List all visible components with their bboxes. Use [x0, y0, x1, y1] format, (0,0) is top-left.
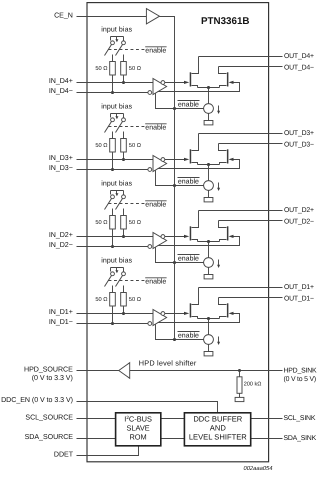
svg-text:(0 V to 3.3 V): (0 V to 3.3 V): [32, 374, 73, 382]
svg-text:SDA_SINK: SDA_SINK: [284, 435, 317, 442]
svg-text:input bias: input bias: [101, 180, 132, 188]
svg-text:enable: enable: [178, 178, 199, 186]
svg-text:input bias: input bias: [101, 257, 132, 265]
svg-text:50 Ω: 50 Ω: [95, 297, 107, 303]
svg-text:HPD_SOURCE: HPD_SOURCE: [24, 366, 73, 374]
svg-text:IN_D1+: IN_D1+: [49, 308, 73, 316]
svg-text:SCL_SINK: SCL_SINK: [284, 415, 316, 422]
svg-text:IN_D4−: IN_D4−: [49, 87, 73, 95]
svg-text:DDC_EN (0 V to 3.3 V): DDC_EN (0 V to 3.3 V): [1, 396, 73, 404]
svg-text:SCL_SOURCE: SCL_SOURCE: [25, 413, 73, 421]
svg-text:50 Ω: 50 Ω: [95, 143, 107, 149]
svg-text:50 Ω: 50 Ω: [129, 143, 141, 149]
svg-text:OUT_D3−: OUT_D3−: [284, 142, 314, 149]
svg-text:OUT_D4−: OUT_D4−: [284, 65, 314, 72]
svg-text:50 Ω: 50 Ω: [95, 66, 107, 72]
svg-text:200 kΩ: 200 kΩ: [244, 381, 262, 387]
svg-text:IN_D3−: IN_D3−: [49, 164, 73, 172]
svg-text:002aaa054: 002aaa054: [243, 465, 272, 472]
svg-text:input bias: input bias: [101, 26, 132, 34]
svg-text:HPD_SINK: HPD_SINK: [284, 367, 317, 374]
svg-text:IN_D1−: IN_D1−: [49, 318, 73, 326]
svg-text:50 Ω: 50 Ω: [129, 66, 141, 72]
svg-text:OUT_D2+: OUT_D2+: [284, 207, 314, 214]
svg-text:enable: enable: [145, 200, 166, 208]
svg-text:enable: enable: [145, 46, 166, 54]
svg-text:DDC BUFFER: DDC BUFFER: [193, 414, 242, 423]
svg-text:OUT_D1−: OUT_D1−: [284, 296, 314, 303]
svg-text:PTN3361B: PTN3361B: [201, 16, 249, 27]
svg-text:AND: AND: [210, 424, 227, 433]
svg-text:SLAVE: SLAVE: [126, 424, 149, 433]
svg-text:SDA_SOURCE: SDA_SOURCE: [25, 433, 74, 441]
svg-text:OUT_D4+: OUT_D4+: [284, 53, 314, 60]
svg-text:I2C-BUS: I2C-BUS: [124, 414, 152, 423]
svg-text:ROM: ROM: [129, 433, 146, 442]
svg-text:enable: enable: [145, 277, 166, 285]
svg-text:OUT_D3+: OUT_D3+: [284, 130, 314, 137]
svg-text:50 Ω: 50 Ω: [129, 297, 141, 303]
svg-text:50 Ω: 50 Ω: [95, 220, 107, 226]
svg-text:(0 V to 5 V): (0 V to 5 V): [284, 376, 316, 383]
svg-text:DDET: DDET: [54, 450, 74, 458]
svg-text:IN_D4+: IN_D4+: [49, 77, 73, 85]
svg-text:enable: enable: [178, 255, 199, 263]
svg-text:OUT_D2−: OUT_D2−: [284, 219, 314, 226]
svg-text:HPD level shifter: HPD level shifter: [139, 358, 197, 367]
svg-text:IN_D2−: IN_D2−: [49, 241, 73, 249]
svg-text:IN_D2+: IN_D2+: [49, 231, 73, 239]
svg-text:enable: enable: [178, 332, 199, 340]
svg-text:input bias: input bias: [101, 103, 132, 111]
svg-text:CE_N: CE_N: [54, 11, 73, 19]
svg-text:IN_D3+: IN_D3+: [49, 154, 73, 162]
svg-text:enable: enable: [145, 123, 166, 131]
svg-text:LEVEL SHIFTER: LEVEL SHIFTER: [189, 433, 247, 442]
svg-text:50 Ω: 50 Ω: [129, 220, 141, 226]
svg-text:enable: enable: [178, 101, 199, 109]
svg-text:OUT_D1+: OUT_D1+: [284, 284, 314, 291]
